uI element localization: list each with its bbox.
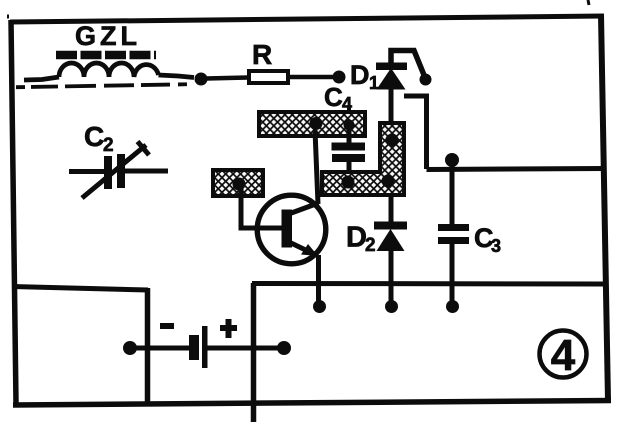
svg-text:3: 3 xyxy=(491,236,501,256)
wire xyxy=(288,75,336,80)
node xyxy=(385,300,398,313)
wire (emitter lead) xyxy=(291,243,314,254)
wire (left vertical) xyxy=(145,288,151,404)
node xyxy=(446,300,459,313)
inductor GZL xyxy=(24,63,194,80)
node (D2 top on plate) xyxy=(382,175,395,188)
figure number 4 xyxy=(540,331,587,378)
svg-text:C: C xyxy=(84,121,104,152)
node (battery right) xyxy=(277,341,291,355)
diode D1 xyxy=(376,63,407,90)
node (antenna junction) xyxy=(195,73,208,86)
capacitor C3 xyxy=(438,224,469,244)
wire xyxy=(206,78,248,79)
svg-text:1: 1 xyxy=(369,73,379,93)
node (C4 bottom on plate) xyxy=(342,176,355,189)
diode D2 xyxy=(374,222,407,252)
node xyxy=(333,71,346,84)
wire (collector lead) xyxy=(315,130,318,204)
wire xyxy=(130,346,189,351)
wire (D1 anode down to shield) xyxy=(389,89,394,138)
node (battery left) xyxy=(123,341,137,355)
dashed line (ferrite rod) xyxy=(16,84,192,87)
chassis plate (hatched, L-shaped) xyxy=(322,123,404,195)
svg-text:D: D xyxy=(350,60,370,90)
svg-text:D: D xyxy=(346,222,367,254)
label plus xyxy=(220,319,237,338)
transistor xyxy=(257,195,326,264)
node (hook end) xyxy=(420,74,432,86)
adjustment arrow of C2 xyxy=(82,145,146,198)
wire xyxy=(207,346,284,351)
node (base tap on plate) xyxy=(233,178,246,191)
wire (base lead) xyxy=(241,184,282,228)
svg-text:R: R xyxy=(252,39,272,70)
wire (D1 cathode hook) xyxy=(391,51,424,76)
chassis plate (hatched, small left) xyxy=(213,170,263,196)
svg-text:GZL: GZL xyxy=(75,21,141,51)
svg-text:2: 2 xyxy=(365,235,376,256)
resistor R xyxy=(249,71,288,83)
wire (to right border) xyxy=(427,169,605,170)
wire (anode tap to right) xyxy=(404,96,427,169)
node (emitter to bus) xyxy=(313,300,326,313)
wire (C4 to lower plate) xyxy=(347,162,352,180)
svg-text:4: 4 xyxy=(342,94,352,114)
wire (C3 to bus) xyxy=(450,244,455,304)
wire (shield to D2) xyxy=(389,194,394,222)
stub above plate xyxy=(347,106,351,112)
node (D1 anode on plate) xyxy=(386,134,399,147)
capacitor C4 xyxy=(332,143,366,163)
bus wire (left bottom) xyxy=(12,287,148,291)
battery xyxy=(189,335,199,360)
svg-text:2: 2 xyxy=(103,135,114,156)
chassis plate (hatched, top) xyxy=(259,112,365,136)
svg-text:C: C xyxy=(324,82,343,112)
svg-text:4: 4 xyxy=(551,331,576,380)
wire (plate to C4) xyxy=(347,125,352,144)
node (C3 top junction) xyxy=(445,153,459,167)
ferrite core (dashed bar) xyxy=(56,51,156,60)
wire (D2 to bus) xyxy=(389,251,394,304)
wire (right vertical through border) xyxy=(251,283,257,422)
label minus xyxy=(160,323,174,329)
node (C4 tap on plate) xyxy=(344,120,355,131)
capacitor C2 (variable) xyxy=(104,154,125,189)
wire (down to C3) xyxy=(450,165,455,225)
node (collector tap on plate) xyxy=(310,117,323,130)
bus wire (bottom) xyxy=(252,281,604,287)
